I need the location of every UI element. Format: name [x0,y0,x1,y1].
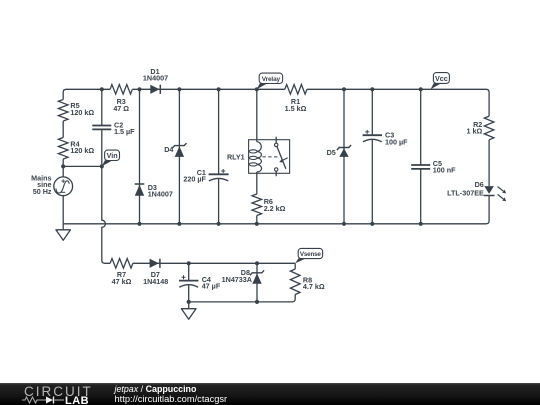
voltage source Mains sine 50 Hz [31,174,72,196]
resistor R8 [290,263,324,294]
wire C4 branch lower [188,285,190,302]
wire D8 branch [256,263,258,302]
svg-text:RLY1: RLY1 [227,153,245,162]
svg-text:D4: D4 [164,145,173,154]
ground C4 [181,302,196,319]
zener diode D8 [222,268,264,284]
node junction D5 top [342,87,346,91]
logo resistor-diode glyph [22,396,68,404]
resistor R4 [58,138,94,160]
node junction D3 bottom [137,222,141,226]
svg-text:1N4007: 1N4007 [143,74,168,83]
wire C2 branch upper [101,89,103,125]
diode D3 [135,183,173,199]
svg-text:1N4148: 1N4148 [143,277,168,286]
node junction C3 bottom [370,222,374,226]
zener diode D4 [164,143,186,157]
ground left [56,224,71,241]
node junction C3 top [370,87,374,91]
flag Vcc [431,73,450,90]
svg-text:120 kΩ: 120 kΩ [70,108,94,117]
wire lower bottom rail [189,295,296,302]
node junction D4 top [177,87,181,91]
wire C3 branch upper [371,89,373,135]
node junction D8 bottom [255,300,259,304]
svg-text:120 kΩ: 120 kΩ [70,146,94,155]
wire left rail between R5 and R4 [62,121,64,138]
diode D1 [143,67,168,94]
footer title text [115,385,197,394]
node junction D8 top [255,261,259,265]
capacitor C5 [411,159,456,175]
wire R7 to R8 [133,262,295,264]
wire C4 branch upper [188,263,190,280]
svg-text:1.5 kΩ: 1.5 kΩ [285,104,307,113]
wire D3 branch [139,89,141,224]
wire C1 branch upper [218,89,220,174]
wire right rail upper [488,140,490,186]
node junction Vin [100,164,104,168]
CircuitLab logo [24,384,93,399]
capacitor C1 [183,168,228,184]
wire top rail middle segment [132,88,284,90]
capacitor C3 [363,130,409,146]
flag Vin [102,150,120,166]
capacitor C4 [179,275,221,291]
diode D7 [143,259,168,286]
logo LAB text [65,395,89,405]
svg-text:47 µF: 47 µF [202,282,221,291]
svg-text:Vin: Vin [107,151,118,160]
svg-text:D5: D5 [327,148,336,157]
wire C1 branch lower [218,179,220,224]
zener diode D5 [327,145,352,157]
capacitor C2 [92,120,135,136]
wire top rail right segment [307,89,489,116]
relay RLY1 [227,137,290,177]
node junction C1 bottom [217,222,221,226]
svg-text:100 nF: 100 nF [433,166,456,175]
node junction C5 bottom [419,222,423,226]
svg-text:50 Hz: 50 Hz [33,187,52,196]
node junction R6 bottom [255,222,259,226]
node junction C1 top [217,87,221,91]
node junction Vrelay [255,87,259,91]
svg-text:1.5 µF: 1.5 µF [114,127,135,136]
svg-text:Vrelay: Vrelay [262,76,281,83]
svg-text:220 µF: 220 µF [183,175,206,184]
svg-text:LTL-307EE: LTL-307EE [447,189,484,198]
resistor R7 [110,259,133,286]
footer url text [115,395,228,404]
resistor R3 [110,85,132,113]
resistor R6 [252,194,286,216]
svg-text:Vsense: Vsense [300,251,322,258]
node junction C4 top [187,261,191,265]
wire R6 to bottom rail [256,216,258,224]
wire C5 branch lower [420,169,422,224]
node junction C2 top [100,87,104,91]
wire C5 branch upper [420,89,422,165]
node junction R4-source [61,164,65,168]
resistor R2 [467,116,494,140]
LED D6 [447,180,506,201]
wire Vin horizontal [63,165,102,167]
node junction C4 bottom [187,300,191,304]
svg-text:1 kΩ: 1 kΩ [467,127,483,136]
svg-text:Vcc: Vcc [435,74,448,83]
wire left rail top corner [66,88,110,90]
wire D4 branch [178,89,180,224]
footer bar [0,383,540,405]
wire C2 to Vin junction and hop over bottom rail [102,129,110,263]
svg-text:2.2 kΩ: 2.2 kΩ [264,204,286,213]
node junction D4 bottom [177,222,181,226]
node junction C5 top [419,87,423,91]
svg-text:100 µF: 100 µF [385,137,408,146]
wire C3 branch lower [371,140,373,224]
svg-text:4.7 kΩ: 4.7 kΩ [303,282,325,291]
resistor R5 [58,100,94,122]
svg-text:47 Ω: 47 Ω [113,104,129,113]
flag Vsense [295,248,322,263]
node junction D5 bottom [342,222,346,226]
svg-text:1N4733A: 1N4733A [222,275,252,284]
flag Vrelay [257,73,283,89]
node junction D3 top [137,87,141,91]
resistor R1 [285,85,307,113]
svg-text:47 kΩ: 47 kΩ [112,277,132,286]
wire source to bottom rail [62,196,64,224]
wire right rail lower and bottom rail [63,196,489,224]
wire relay coil upper [256,89,258,142]
wire coil to R6 [256,172,258,194]
wire D5 branch [343,89,345,224]
wire R4 to source [62,159,64,177]
svg-text:1N4007: 1N4007 [148,190,173,199]
wire top rail left segment [63,89,110,99]
